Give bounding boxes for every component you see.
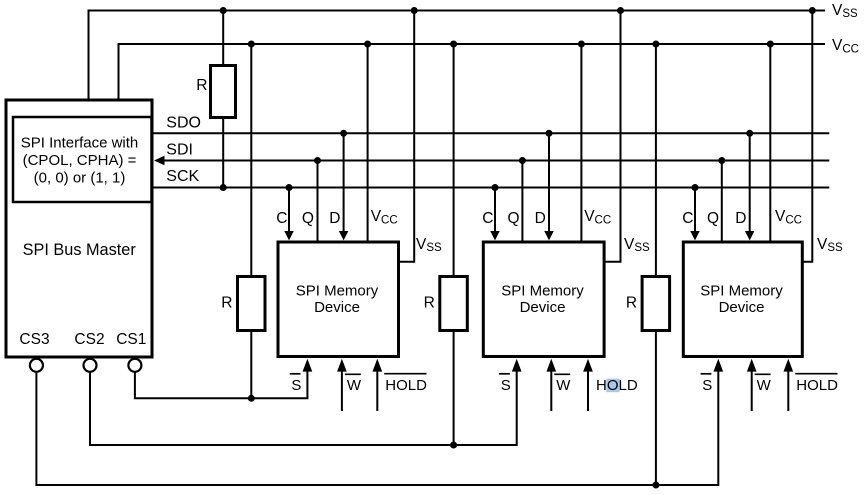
resistor R4 [642,277,670,331]
wire U3 HOLD stub [787,370,789,411]
junction R3-VCC [450,41,457,48]
svg-text:Q: Q [302,210,314,227]
svg-text:SPI Memory: SPI Memory [501,282,584,299]
wire U1 pin C from SCK [288,188,290,232]
arrow U1 S [303,359,313,372]
overline U3 W [755,373,771,375]
overline U1 S [290,373,301,375]
junction R1-SCK [220,184,227,191]
junction VSS1 [411,7,418,14]
svg-text:CS2: CS2 [74,331,104,348]
svg-text:S: S [702,377,712,394]
wire U3 pin VCC [769,44,771,241]
SPI Memory Device U1 box [278,242,399,357]
wire U2 pin VCC [580,44,582,241]
svg-text:Device: Device [520,299,566,316]
wire CS3 to U3 S [36,370,718,485]
wire R4 bottom stub [655,331,657,486]
net VSS rail [88,10,826,12]
junction R4-VCC [652,41,659,48]
wire R3 top stub [453,44,455,277]
svg-text:VSS: VSS [832,2,858,20]
svg-text:Q: Q [707,210,719,227]
wire master top to VCC rail [118,44,120,99]
svg-text:CS3: CS3 [19,331,49,348]
svg-text:HOLD: HOLD [596,377,638,394]
wire U3 pin C from SCK [694,188,696,232]
wire R2 bottom stub [250,331,252,399]
wire master top to VSS rail [88,11,90,99]
junction D2-SDO [546,130,553,137]
wire U1 pin D from SDO [343,133,345,231]
wire U2 HOLD stub [587,370,589,411]
junction C2-SCK [492,184,499,191]
arrow U2 W [546,359,556,372]
wire R1 bottom stub [222,118,224,188]
svg-text:SDI: SDI [166,142,193,159]
overline U1 HOLD [384,373,426,375]
svg-text:C: C [482,210,493,227]
wire R2 top stub [250,44,252,277]
arrow U2 D [544,231,554,240]
junction C3-SCK [692,184,699,191]
wire U1 pin VCC [367,44,369,241]
junction Q2-SDI [519,157,526,164]
svg-text:SPI Memory: SPI Memory [700,282,783,299]
overline U2 W [554,373,570,375]
svg-text:VSS: VSS [817,236,843,254]
junction R4-CS3 [652,482,659,489]
pin CS1 terminal circle [128,359,141,372]
svg-text:Device: Device [719,299,765,316]
svg-text:D: D [735,210,746,227]
arrow U3 HOLD [783,359,793,372]
junction R1-VSS [220,7,227,14]
resistor R2 [238,277,266,331]
svg-text:SPI Bus Master: SPI Bus Master [23,241,137,259]
svg-text:VCC: VCC [584,208,611,226]
net SCK line [152,187,829,189]
wire R1 top stub [222,11,224,66]
svg-text:C: C [682,210,693,227]
svg-text:W: W [556,377,571,394]
arrow U2 S [512,359,522,372]
svg-text:C: C [276,210,287,227]
svg-text:R: R [626,295,637,312]
svg-text:Device: Device [314,299,360,316]
junction VCC1 [364,41,371,48]
svg-text:(CPOL, CPHA) =: (CPOL, CPHA) = [23,152,137,169]
overline U3 HOLD [795,373,837,375]
wire U3 pin Q from SDI [721,161,723,241]
junction Q3-SDI [718,157,725,164]
wire U2 W stub [550,370,552,411]
resistor R3 [440,277,468,331]
overline U2 S [499,373,510,375]
wire CS2 to U2 S [90,370,517,445]
overline U1 W [345,373,361,375]
arrow U2 HOLD [583,359,593,372]
svg-text:(0, 0) or (1, 1): (0, 0) or (1, 1) [34,169,126,186]
net SDO line [152,132,829,134]
arrow U2 C [490,231,500,240]
wire U3 VSS elbow [802,11,812,262]
net SDI line [162,160,829,162]
junction R2-CS1 [248,395,255,402]
svg-text:VSS: VSS [624,236,650,254]
junction Q1-SDI [314,157,321,164]
arrow U3 W [747,359,757,372]
wire U2 VSS elbow [604,11,620,262]
junction VSS2 [617,7,624,14]
svg-text:SPI Memory: SPI Memory [296,282,379,299]
svg-text:SPI Interface with: SPI Interface with [21,135,139,152]
pin CS3 terminal circle [30,359,43,372]
svg-text:S: S [291,377,301,394]
svg-text:R: R [196,77,207,94]
svg-text:W: W [347,377,362,394]
svg-text:Q: Q [508,210,520,227]
junction R3-CS2 [450,442,457,449]
wire U2 pin Q from SDI [521,161,523,241]
resistor R1 [211,66,236,118]
arrow U1 HOLD [372,359,382,372]
svg-text:SDO: SDO [166,114,201,131]
SPI Memory Device U3 box [683,242,802,357]
wire U1 VSS elbow [399,11,415,262]
junction VCC2 [578,41,585,48]
SPI Memory Device U2 box [483,242,604,357]
svg-text:S: S [501,377,511,394]
SPI Bus Master box [6,100,152,357]
wire U2 pin D from SDO [548,133,550,231]
svg-text:VCC: VCC [371,208,398,226]
junction D1-SDO [340,130,347,137]
wire U3 pin D from SDO [749,133,751,231]
net VCC rail [118,43,826,45]
svg-text:VSS: VSS [416,236,442,254]
junction C1-SCK [286,184,293,191]
wire R4 top stub [655,44,657,277]
svg-text:HOLD: HOLD [796,377,838,394]
svg-text:CS1: CS1 [116,331,146,348]
wire U2 pin C from SCK [494,188,496,232]
wire CS1 to U1 S [135,370,308,398]
svg-text:HOLD: HOLD [385,377,427,394]
junction VCC3 [767,41,774,48]
svg-text:R: R [424,295,435,312]
pin CS2 terminal circle [84,359,97,372]
arrow U1 C [284,231,294,240]
wire U1 pin Q from SDI [317,161,319,241]
highlight on O of U2 HOLD [606,379,619,393]
wire U1 HOLD stub [376,370,378,411]
junction VSS3 [809,7,816,14]
overline U3 S [701,373,712,375]
arrow U3 C [690,231,700,240]
wire U3 W stub [751,370,753,411]
wire U1 W stub [341,370,343,411]
svg-text:SCK: SCK [166,168,199,185]
arrow U3 D [745,231,755,240]
svg-text:VCC: VCC [832,37,859,55]
arrow U1 D [339,231,349,240]
arrow U1 W [337,359,347,372]
svg-text:R: R [221,295,232,312]
svg-text:D: D [535,210,546,227]
svg-text:D: D [329,210,340,227]
svg-text:W: W [757,377,772,394]
junction R2-VCC [248,41,255,48]
arrow U3 S [713,359,723,372]
wire R3 bottom stub [453,331,455,446]
junction D3-SDO [746,130,753,137]
svg-text:VCC: VCC [775,208,802,226]
SPI Interface inner box [13,117,152,202]
arrow SDI into master [154,156,165,165]
